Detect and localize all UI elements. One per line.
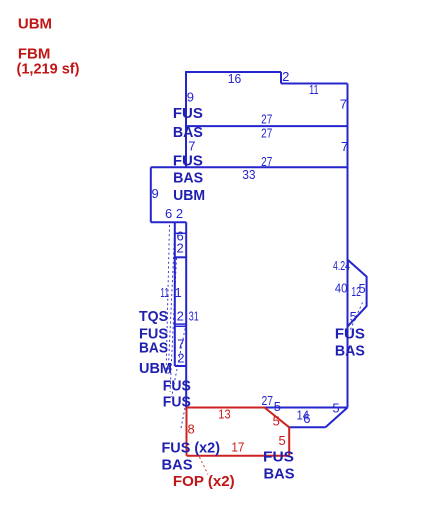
- svg-text:9: 9: [187, 90, 194, 105]
- svg-text:5: 5: [350, 309, 357, 324]
- wall: left box left edge: [150, 167, 152, 222]
- svg-text:6: 6: [303, 411, 310, 426]
- wall: upper-right top edge: [281, 83, 348, 85]
- FOP left edge (red): [186, 408, 188, 456]
- svg-text:9: 9: [152, 186, 159, 201]
- svg-text:5: 5: [274, 399, 281, 414]
- svg-text:27: 27: [261, 125, 272, 140]
- stair strip bottom: [175, 365, 186, 367]
- wall: bottom-right diagonal: [326, 408, 348, 428]
- svg-text:FUS: FUS: [263, 449, 294, 466]
- svg-text:BAS: BAS: [139, 340, 168, 357]
- wall: right edge: [347, 84, 349, 408]
- svg-text:2: 2: [282, 69, 289, 84]
- svg-text:(1,219 sf): (1,219 sf): [17, 61, 80, 78]
- svg-text:27: 27: [261, 111, 272, 126]
- leader dashed FOP (red): [200, 457, 209, 475]
- wall: stair strip left edge: [174, 222, 176, 366]
- svg-text:5: 5: [332, 400, 339, 415]
- svg-text:2: 2: [177, 241, 184, 256]
- wall: top notch vertical: [280, 72, 282, 84]
- FOP right edge (red): [288, 427, 290, 455]
- svg-text:1: 1: [175, 285, 182, 300]
- leader dashed bottom-left: [181, 408, 185, 428]
- svg-text:BAS: BAS: [264, 466, 295, 483]
- stair divider 3: [175, 323, 186, 325]
- svg-text:8: 8: [188, 422, 195, 437]
- FOP bottom edge (red): [187, 455, 290, 457]
- leader dashed 3: [170, 258, 177, 392]
- svg-text:40: 40: [335, 281, 348, 296]
- wall: divider line 27/27: [186, 125, 348, 127]
- svg-text:17: 17: [231, 440, 244, 455]
- svg-text:11: 11: [160, 285, 169, 300]
- wall: lower-left edge: [185, 222, 187, 407]
- FOP diagonal (red): [265, 408, 290, 428]
- leader dashed bay: [350, 303, 363, 332]
- leader dashed 4: [172, 324, 187, 397]
- svg-text:BAS: BAS: [173, 170, 203, 187]
- svg-text:FUS: FUS: [173, 153, 203, 170]
- svg-text:FUS (x2): FUS (x2): [162, 440, 221, 457]
- svg-text:7: 7: [177, 336, 184, 351]
- svg-text:BAS: BAS: [335, 343, 365, 360]
- svg-text:UBM: UBM: [18, 16, 52, 33]
- svg-text:5: 5: [273, 413, 280, 428]
- svg-text:6: 6: [165, 206, 172, 221]
- svg-text:5: 5: [279, 433, 286, 448]
- svg-text:13: 13: [218, 406, 230, 421]
- wall: divider line 27/33: [151, 166, 348, 168]
- svg-text:5: 5: [359, 281, 366, 296]
- svg-text:33: 33: [242, 167, 255, 182]
- svg-text:4.24: 4.24: [333, 258, 350, 273]
- wall: left edge upper: [185, 71, 187, 168]
- svg-text:2: 2: [177, 350, 184, 365]
- svg-text:11: 11: [309, 82, 319, 97]
- svg-text:FUS: FUS: [163, 394, 191, 411]
- svg-text:BAS: BAS: [173, 124, 203, 141]
- svg-text:7: 7: [340, 96, 347, 111]
- svg-text:BAS: BAS: [162, 457, 193, 474]
- stair divider 4: [175, 325, 186, 327]
- svg-text:27: 27: [261, 154, 272, 169]
- svg-text:FUS: FUS: [335, 326, 365, 343]
- bay bump-out right side: [348, 260, 367, 327]
- stair divider 2: [175, 256, 186, 258]
- stair divider 1: [175, 232, 186, 234]
- svg-text:27: 27: [262, 393, 274, 408]
- wall: left box bottom: [151, 221, 186, 223]
- leader dashed 1: [166, 225, 170, 376]
- FOP top edge (red): [187, 407, 265, 409]
- svg-text:2: 2: [177, 308, 184, 323]
- svg-text:16: 16: [228, 71, 242, 86]
- wall: top edge: [186, 71, 281, 73]
- svg-text:UBM: UBM: [173, 187, 205, 204]
- svg-text:31: 31: [189, 308, 199, 323]
- svg-text:UBM: UBM: [139, 360, 172, 377]
- svg-text:FUS: FUS: [163, 378, 191, 395]
- svg-text:2: 2: [176, 206, 183, 221]
- wall: bottom edge: [186, 407, 347, 409]
- svg-text:FOP (x2): FOP (x2): [173, 473, 235, 490]
- leader dashed 2: [168, 225, 175, 376]
- svg-text:7: 7: [341, 139, 348, 154]
- svg-text:TQS: TQS: [139, 308, 168, 325]
- wall: bottom notch horizontal: [289, 426, 325, 428]
- svg-text:FUS: FUS: [173, 105, 203, 122]
